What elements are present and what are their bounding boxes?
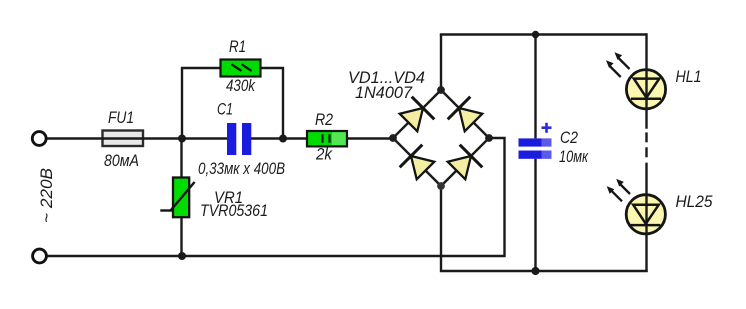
capacitor C1 plates <box>227 123 236 155</box>
junction node bridge bottom <box>437 182 445 190</box>
LED HL25 emission arrow b <box>607 186 622 201</box>
input terminal upper <box>32 132 46 146</box>
wire: drop to HL1 and through HL1 <box>645 33 647 129</box>
capacitor C2 plates <box>519 138 552 146</box>
wire: VR1 branch down to bottom line <box>180 139 182 257</box>
svg-text:C2: C2 <box>560 129 578 147</box>
svg-text:80мА: 80мА <box>104 152 139 170</box>
LED HL25 body circle <box>626 195 665 234</box>
svg-text:R2: R2 <box>315 111 333 129</box>
svg-text:430k: 430k <box>226 77 256 95</box>
wire: into HL25 and down to bottom rail <box>645 163 647 272</box>
varistor VR1 body <box>173 178 189 218</box>
varistor VR1 slash and foot <box>171 182 195 210</box>
junction node bridge left <box>389 134 397 142</box>
diode VD2 (upper-right arm, cathode to top node) <box>448 97 483 132</box>
fuse FU1 body <box>103 131 144 147</box>
LED HL1 body circle <box>626 70 665 109</box>
wire: C2 top lead <box>534 35 536 139</box>
junction node bridge top <box>437 86 445 94</box>
svg-text:2k: 2k <box>315 146 333 164</box>
junction node bridge right <box>485 134 493 142</box>
svg-text:HL25: HL25 <box>676 193 714 211</box>
diode VD3 (lower-left arm, cathode to left node) <box>400 145 435 180</box>
capacitor C2 polarity plus <box>542 123 552 133</box>
resistor R1 power-rating marks <box>232 64 242 71</box>
wire: C2 bottom lead <box>534 159 536 271</box>
LED HL1 emission arrow a <box>615 52 630 69</box>
wire: bottom AC line from terminal, up to bridge right node <box>47 138 505 256</box>
input terminal lower <box>33 249 47 263</box>
wire: bridge bottom node down and negative bottom rail <box>441 186 648 271</box>
diode VD1 (upper-left arm, cathode to top node) <box>400 97 435 132</box>
svg-text:TVR05361: TVR05361 <box>200 202 268 220</box>
LED HL25 emission arrow a <box>616 179 630 194</box>
junction node C2 top rail <box>532 31 539 38</box>
LED HL1 diode triangle <box>634 79 660 98</box>
diode VD4 (lower-right arm, cathode to right node) <box>448 145 483 180</box>
wire: bridge top node to positive rail <box>440 35 442 91</box>
wire: top AC line, C1 right plate to bridge left node (through R2) <box>251 137 395 139</box>
LED HL1 emission arrow b <box>606 60 621 77</box>
resistor R2 power-rating marks <box>321 134 323 142</box>
LED HL25 cathode bar <box>630 224 660 227</box>
svg-text:R1: R1 <box>229 38 246 56</box>
resistor R1 body <box>221 60 261 77</box>
svg-text:1N4007: 1N4007 <box>355 84 413 102</box>
wire: dashed continuation marks between HL1 and HL25 <box>645 132 647 142</box>
svg-text:FU1: FU1 <box>108 109 134 127</box>
wire: bridge diamond arms <box>393 90 489 186</box>
junction node C2 bottom rail <box>531 267 539 275</box>
LED HL1 cathode bar <box>631 97 661 100</box>
svg-text:HL1: HL1 <box>676 68 702 86</box>
wire: positive top rail <box>440 33 647 35</box>
wire: R1 parallel branch <box>182 68 283 139</box>
svg-text:10мк: 10мк <box>559 148 589 166</box>
junction node at R1/C1 right branch <box>279 135 287 143</box>
resistor R2 body <box>307 131 347 146</box>
wire: top AC line, terminal to C1 left plate (through FU1) <box>47 137 228 139</box>
svg-text:C1: C1 <box>217 101 233 119</box>
LED HL25 diode triangle <box>633 205 659 224</box>
junction node at FU1/R1/VR1 branch <box>178 135 186 143</box>
svg-text:0,33мк x 400В: 0,33мк x 400В <box>198 160 285 178</box>
junction node VR1 to bottom line <box>178 252 186 260</box>
svg-text:~ 220В: ~ 220В <box>38 168 56 223</box>
